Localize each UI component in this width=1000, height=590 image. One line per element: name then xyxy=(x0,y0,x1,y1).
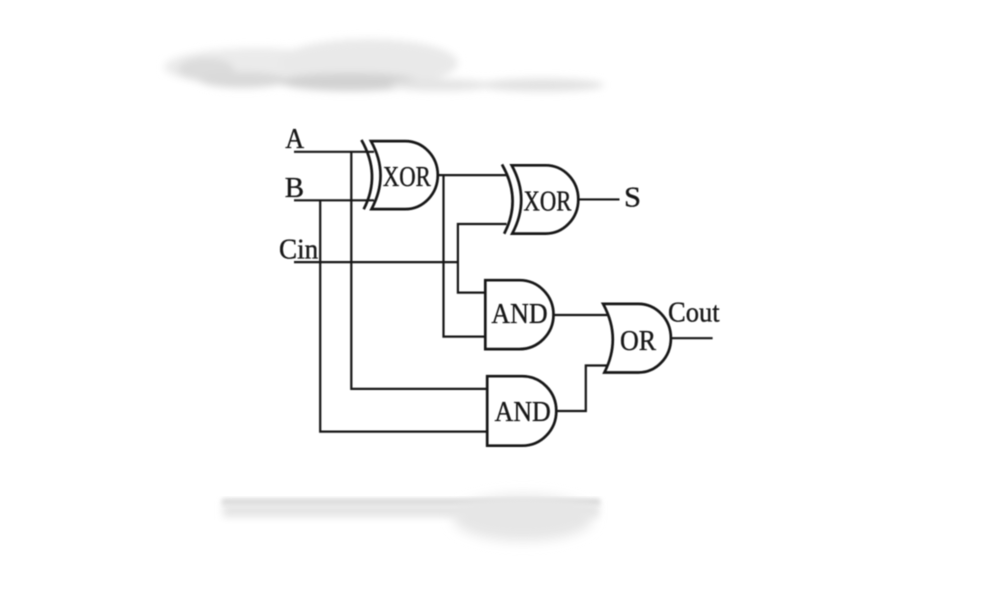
and gate U3 body xyxy=(485,280,553,349)
or gate U5 body xyxy=(603,304,671,373)
wire B branch to AND2 bottom input xyxy=(320,200,487,431)
wire OR output Cout xyxy=(671,337,713,339)
svg-text:AND: AND xyxy=(491,299,547,330)
and gate U4 body xyxy=(487,376,556,446)
wire Cin input xyxy=(294,261,459,263)
xor gate U2 body xyxy=(512,165,579,233)
wire AND2 output to OR bottom input xyxy=(556,366,608,412)
wire XOR2 output to S xyxy=(578,198,619,200)
xor gate U1 body xyxy=(371,141,438,209)
wire AND1 output to OR top input xyxy=(553,314,608,316)
wire B input xyxy=(294,199,374,201)
decorative bottom smudge xyxy=(222,499,600,505)
svg-text:A: A xyxy=(285,124,305,155)
wire A branch to AND2 top input xyxy=(351,152,487,389)
svg-text:Cout: Cout xyxy=(668,297,720,328)
wire XOR1 output to XOR2 top input xyxy=(438,174,507,176)
svg-text:AND: AND xyxy=(495,397,551,428)
wire XOR1 output branch to AND1 bottom input xyxy=(444,175,486,337)
xor gate U1 input arc xyxy=(361,140,372,209)
wire A input xyxy=(294,151,374,153)
wire Cin branch down to AND1 top input xyxy=(458,262,485,293)
svg-text:S: S xyxy=(624,182,641,213)
svg-text:XOR: XOR xyxy=(383,162,431,193)
decorative top smudge xyxy=(164,39,604,92)
svg-text:XOR: XOR xyxy=(524,186,572,217)
wire Cin branch up to XOR2 bottom input xyxy=(458,224,507,262)
svg-text:B: B xyxy=(285,173,304,204)
svg-text:Cin: Cin xyxy=(279,235,318,266)
xor gate U2 input arc xyxy=(502,164,513,233)
svg-text:OR: OR xyxy=(620,326,656,357)
